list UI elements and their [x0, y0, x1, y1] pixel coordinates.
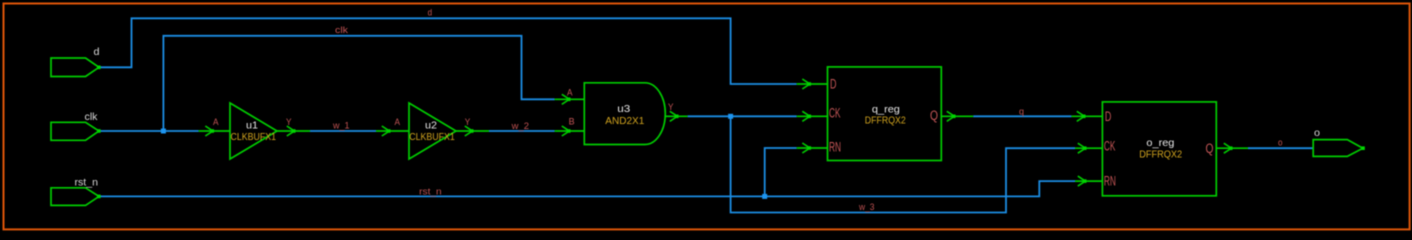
- input port clk: [51, 122, 101, 140]
- u1 pin stub A: [199, 130, 230, 132]
- input port rst_n: [51, 188, 101, 206]
- u3 pin stub B: [555, 130, 585, 132]
- output port o: [1313, 140, 1365, 157]
- svg-text:u1: u1: [246, 119, 258, 131]
- wire net rst_n: [99, 181, 1075, 196]
- wire net d: [99, 18, 797, 84]
- svg-text:CK: CK: [1104, 139, 1116, 154]
- svg-text:A: A: [567, 88, 573, 98]
- svg-text:D: D: [1105, 109, 1112, 124]
- wire net w_1: [310, 130, 376, 132]
- svg-text:u2: u2: [425, 119, 437, 131]
- input port d: [51, 58, 101, 77]
- svg-text:clk: clk: [335, 25, 349, 35]
- svg-text:CLKBUFX1: CLKBUFX1: [409, 131, 455, 143]
- wire net clk branch to AND A: [163, 36, 554, 131]
- svg-text:clk: clk: [85, 112, 99, 123]
- svg-text:CLKBUFX1: CLKBUFX1: [231, 131, 277, 143]
- wire net q: [973, 115, 1071, 117]
- flip-flop o_reg body: [1102, 102, 1216, 196]
- svg-text:Q: Q: [1206, 141, 1214, 156]
- svg-text:B: B: [569, 117, 575, 127]
- o_reg pin stub RN: [1075, 180, 1102, 182]
- svg-text:o: o: [1314, 128, 1320, 139]
- buffer U1 body: [230, 103, 277, 159]
- junction on clk: [161, 129, 166, 134]
- u1 pin stub Y: [277, 130, 310, 132]
- svg-text:CK: CK: [829, 106, 841, 121]
- svg-text:AND2X1: AND2X1: [605, 115, 644, 127]
- AND gate U3 body: [584, 83, 665, 145]
- svg-text:D: D: [830, 77, 837, 92]
- svg-text:Y: Y: [668, 102, 674, 112]
- wire net w_3: [731, 116, 1075, 212]
- svg-text:A: A: [395, 117, 401, 127]
- svg-text:u3: u3: [617, 103, 630, 115]
- flip-flop q_reg body: [828, 67, 942, 161]
- svg-text:d: d: [428, 8, 433, 18]
- junction on rst_n: [762, 194, 767, 199]
- svg-text:Q: Q: [930, 108, 938, 123]
- wire net clk to u1: [99, 130, 199, 132]
- wire AND Y to q_reg CK: [688, 115, 797, 117]
- q_reg pin stub Q: [941, 115, 973, 117]
- q_reg pin stub CK: [797, 115, 828, 117]
- o_reg pin stub CK: [1075, 147, 1102, 149]
- junction on AND Y / w_3: [728, 114, 733, 119]
- svg-text:Y: Y: [465, 117, 471, 127]
- svg-text:RN: RN: [829, 140, 841, 155]
- svg-text:q: q: [1019, 107, 1024, 117]
- svg-text:DFFRQX2: DFFRQX2: [1139, 149, 1182, 161]
- wire net o: [1248, 147, 1313, 149]
- o_reg pin stub Q: [1216, 147, 1248, 149]
- svg-text:DFFRQX2: DFFRQX2: [865, 115, 906, 127]
- svg-text:A: A: [213, 117, 219, 127]
- svg-text:rst_n: rst_n: [419, 187, 442, 197]
- svg-text:o_reg: o_reg: [1146, 137, 1174, 149]
- q_reg pin stub D: [797, 83, 828, 85]
- u2 pin stub Y: [456, 130, 489, 132]
- u2 pin stub A: [376, 130, 409, 132]
- svg-text:o: o: [1278, 138, 1283, 148]
- wire net w_2: [489, 130, 555, 132]
- o_reg pin stub D: [1071, 115, 1102, 117]
- u3 pin stub Y: [665, 115, 687, 117]
- svg-text:w_3: w_3: [858, 202, 874, 212]
- svg-text:w_2: w_2: [511, 121, 529, 131]
- svg-text:d: d: [94, 47, 100, 58]
- wire rst_n branch to q_reg RN: [765, 148, 797, 196]
- q_reg pin stub RN: [797, 147, 828, 149]
- svg-text:rst_n: rst_n: [75, 178, 99, 189]
- svg-text:RN: RN: [1104, 174, 1116, 189]
- u3 pin stub A: [555, 98, 585, 100]
- svg-text:w_1: w_1: [332, 121, 349, 131]
- buffer U2 body: [409, 103, 456, 159]
- svg-text:Y: Y: [286, 117, 292, 127]
